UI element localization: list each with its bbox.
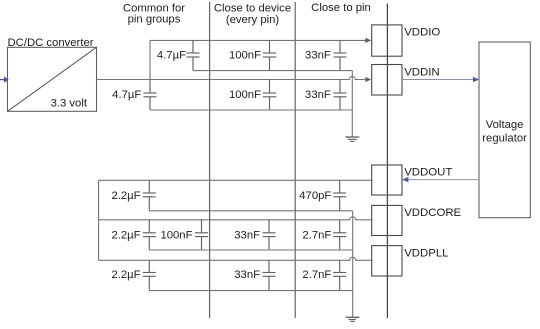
capacitor 2.2µF (VDDPLL row) xyxy=(143,260,156,290)
wire: VDDCORE row ground return xyxy=(149,249,352,251)
wire: VDDIO branch riser at x=150 xyxy=(149,40,151,79)
svg-text:33nF: 33nF xyxy=(305,49,331,61)
pin box VDDIO xyxy=(372,25,402,56)
wire: top ground rail vertical xyxy=(351,71,353,137)
svg-text:Close to pin: Close to pin xyxy=(311,2,371,14)
pin rail line through pin boxes xyxy=(386,4,388,319)
wire: VDDPLL row ground return xyxy=(149,290,352,292)
svg-text:VDDPLL: VDDPLL xyxy=(404,248,448,260)
capacitor 33nF (VDDIN row) xyxy=(334,80,347,111)
svg-text:VDDCORE: VDDCORE xyxy=(404,207,461,219)
capacitor 4.7µF (VDDIO row) xyxy=(187,40,200,70)
wire: VDDPLL row supply (with hop) xyxy=(99,257,372,260)
svg-text:100nF: 100nF xyxy=(229,89,261,101)
svg-text:4.7µF: 4.7µF xyxy=(157,49,186,61)
box: DC/DC converter xyxy=(8,47,97,111)
input arrow into DC/DC converter xyxy=(0,76,9,82)
box: Voltage regulator xyxy=(479,42,530,218)
capacitor 2.7nF (VDDPLL row) xyxy=(333,260,346,290)
svg-text:2.2µF: 2.2µF xyxy=(111,190,140,202)
capacitor 4.7µF (VDDIN row) xyxy=(144,80,157,111)
svg-text:2.7nF: 2.7nF xyxy=(302,269,331,281)
capacitor 100nF (VDDIN row) xyxy=(263,80,276,111)
wire+arrow: voltage regulator to VDDOUT xyxy=(402,177,479,183)
arrow into VDDIO pin xyxy=(365,38,371,43)
svg-text:DC/DC converter: DC/DC converter xyxy=(8,37,94,49)
wire: VDDIO row supply xyxy=(150,39,366,41)
capacitor 33nF (VDDPLL row) xyxy=(263,260,276,290)
column separator line 1 xyxy=(209,2,211,318)
column separator line 2 xyxy=(294,2,296,318)
svg-text:33nF: 33nF xyxy=(305,89,331,101)
capacitor 470pF (VDDOUT row) xyxy=(333,180,346,211)
wire: main 3.3V supply from DC/DC to VDDIN (with hop over ground line) xyxy=(97,76,367,79)
svg-text:2.2µF: 2.2µF xyxy=(111,269,140,281)
svg-text:VDDOUT: VDDOUT xyxy=(404,167,452,179)
column header: Close to device (every pin) xyxy=(214,2,291,26)
wire: VDDOUT row ground return xyxy=(149,210,352,212)
capacitor 33nF (VDDCORE row) xyxy=(263,220,276,250)
svg-text:Close to device: Close to device xyxy=(214,2,291,14)
wire: VDDOUT row supply xyxy=(99,179,372,181)
ground (bottom) xyxy=(346,317,360,321)
svg-text:4.7µF: 4.7µF xyxy=(112,89,141,101)
capacitor 2.2µF (VDDOUT row) xyxy=(143,180,156,211)
svg-text:VDDIN: VDDIN xyxy=(404,67,439,79)
svg-text:regulator: regulator xyxy=(482,133,527,145)
svg-text:470pF: 470pF xyxy=(299,190,331,202)
arrow into VDDIN pin xyxy=(365,77,371,82)
svg-text:3.3 volt: 3.3 volt xyxy=(51,98,88,110)
wire: VDDCORE row supply (with hop) xyxy=(99,217,372,220)
pin box VDDOUT xyxy=(372,165,402,195)
capacitor 33nF (VDDIO row) xyxy=(334,40,347,70)
pin box VDDCORE xyxy=(372,205,402,235)
svg-text:Voltage: Voltage xyxy=(486,119,524,131)
capacitor 2.7nF (VDDCORE row) xyxy=(333,220,346,250)
wire: VDDIO row ground return xyxy=(193,70,352,72)
svg-text:2.7nF: 2.7nF xyxy=(302,229,331,241)
svg-text:33nF: 33nF xyxy=(234,269,260,281)
svg-text:(every pin): (every pin) xyxy=(226,14,280,26)
wire: bottom ground rail vertical xyxy=(352,211,354,317)
svg-text:2.2µF: 2.2µF xyxy=(111,229,140,241)
diagonal inside DC/DC converter box xyxy=(8,47,97,111)
column header: Common for pin groups xyxy=(123,2,185,25)
pin box VDDIN xyxy=(372,65,402,96)
label: Voltage regulator xyxy=(482,119,527,145)
svg-text:33nF: 33nF xyxy=(234,229,260,241)
svg-text:100nF: 100nF xyxy=(160,229,192,241)
svg-text:pin groups: pin groups xyxy=(128,13,181,25)
svg-text:100nF: 100nF xyxy=(229,49,261,61)
pin box VDDPLL xyxy=(372,246,402,276)
wire: VDDIN row ground return xyxy=(150,109,352,111)
ground (top) xyxy=(345,137,359,141)
column header: Close to pin xyxy=(311,2,371,14)
wire+arrow: VDDIN to voltage regulator xyxy=(402,77,479,83)
capacitor 100nF (VDDCORE row) xyxy=(195,220,208,250)
wire: bottom section left riser xyxy=(98,180,100,260)
capacitor 100nF (VDDIO row) xyxy=(263,40,276,70)
capacitor 2.2µF (VDDCORE row) xyxy=(143,220,156,250)
svg-text:VDDIO: VDDIO xyxy=(404,27,440,39)
